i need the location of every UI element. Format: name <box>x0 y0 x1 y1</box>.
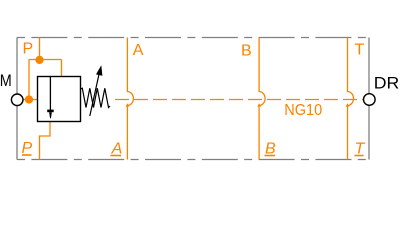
svg-text:T: T <box>355 41 365 58</box>
svg-text:DR: DR <box>374 73 400 92</box>
svg-text:NG10: NG10 <box>284 102 322 119</box>
svg-text:A: A <box>133 42 144 59</box>
svg-text:M: M <box>0 72 12 90</box>
svg-text:P: P <box>23 41 34 58</box>
svg-text:B: B <box>241 43 252 60</box>
